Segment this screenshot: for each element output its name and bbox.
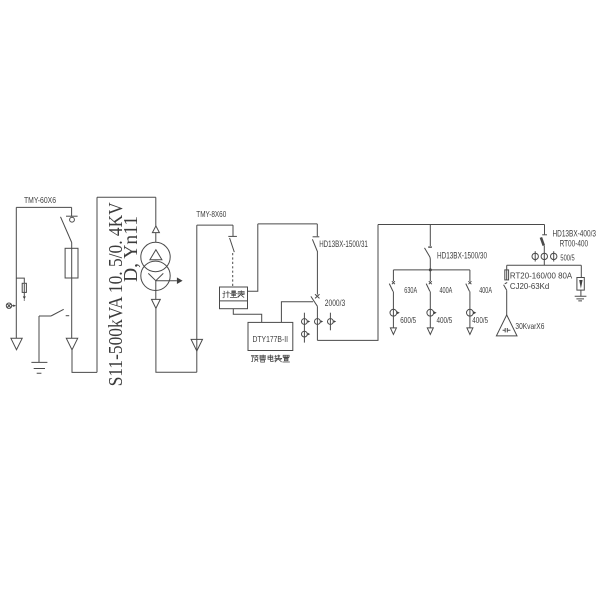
ground PE2 xyxy=(575,296,587,301)
switch HD13BX-1500/30 drop xyxy=(429,225,431,247)
wire distribution bus2 xyxy=(393,269,470,271)
wire drop to disconnector QS1 xyxy=(71,207,73,216)
node feeder 3 arrow (open triangle down) xyxy=(467,328,473,335)
wire earthing switch to ground xyxy=(38,316,40,362)
breaker QF4 cross mark xyxy=(468,281,471,284)
svg-text:HD13BX-1500/31: HD13BX-1500/31 xyxy=(319,239,368,249)
node connection arrow T1 (open triangle down) xyxy=(66,338,77,350)
svg-text:400/5: 400/5 xyxy=(472,315,488,325)
dashed wire to metering box xyxy=(232,253,234,287)
wire fuse-switch down xyxy=(543,246,545,266)
wire switch to breaker 2000/3 xyxy=(316,252,318,295)
svg-text:600/5: 600/5 xyxy=(400,315,416,325)
wire to transformer primary xyxy=(155,197,157,226)
CT 600/5 xyxy=(390,309,397,316)
wire 0.4kV bus segment A xyxy=(197,224,233,226)
transformer T delta symbol xyxy=(150,250,162,260)
disconnector QS1 fixed contact tick xyxy=(66,215,78,217)
wire bottom run to bus C riser xyxy=(317,225,378,341)
feeder 1 drop xyxy=(392,270,394,281)
wire secondary riser to 0.4kV bus xyxy=(196,225,198,372)
wire fuse to connection arrow xyxy=(71,278,73,338)
svg-text:RT20-160/00 80A: RT20-160/00 80A xyxy=(510,270,573,280)
svg-text:400A: 400A xyxy=(440,285,453,295)
label 预售电装置 (prepaid device, drawn glyphs) xyxy=(251,355,289,362)
fuse-switch HD13BX-400/3 drop xyxy=(544,225,546,235)
surge arrester F2 body xyxy=(577,278,584,291)
wire transformer secondary down xyxy=(155,291,157,300)
CT 500/5 line C xyxy=(553,251,555,261)
wire feeder 3 down xyxy=(469,291,471,328)
wire breaker down through CT xyxy=(316,306,318,340)
svg-text:500/5: 500/5 xyxy=(560,252,574,262)
svg-text:400A: 400A xyxy=(479,285,492,295)
wire contactor to capacitor bank xyxy=(506,290,508,315)
surge arrester F1 branch wire xyxy=(16,278,24,283)
metering box 计量表 xyxy=(220,287,248,309)
surge arrester F1 discharge arrow xyxy=(23,284,25,297)
fuse RT20-160/00 body xyxy=(505,270,509,280)
label 计量表 (metering meter, drawn glyphs) xyxy=(223,291,245,298)
feeder 3 drop xyxy=(469,270,471,281)
wire blade to fuse xyxy=(71,243,73,249)
contactor CJ20 tick xyxy=(505,283,508,284)
wire drop to fuse RT20 xyxy=(506,265,508,270)
breaker QF2 blade xyxy=(389,284,393,292)
wire primary loop top xyxy=(97,196,156,198)
wire 0.4kV bus segment B xyxy=(258,223,318,225)
fuse-switch fixed tick xyxy=(542,234,547,236)
svg-text:TMY-60X6: TMY-60X6 xyxy=(24,196,56,205)
svg-text:2000/3: 2000/3 xyxy=(325,298,345,309)
wire T2 to transformer xyxy=(155,233,157,243)
disconnector QS1 contact circle xyxy=(70,217,75,222)
indicator lamp (circle with X) xyxy=(6,303,11,308)
svg-text:TMY-8X60: TMY-8X60 xyxy=(196,210,226,219)
node plug arrow T3 (open triangle down) xyxy=(152,299,161,308)
wire 10kV incoming top xyxy=(16,206,71,208)
wire feeder 2 down xyxy=(429,291,431,328)
node feeder 2 arrow (open triangle down) xyxy=(427,328,433,335)
fuse FU1 body xyxy=(65,248,78,278)
wire meter box to bus riser xyxy=(248,224,258,291)
svg-text:400/5: 400/5 xyxy=(437,315,453,325)
earthing switch QS2 horizontal wire xyxy=(39,315,51,317)
wire meter box to prepaid device xyxy=(233,309,261,323)
wire T1 to primary loop bottom xyxy=(72,350,97,373)
surge arrester F2 arrow xyxy=(579,280,582,289)
prepaid device box DTY177B-II xyxy=(248,322,293,350)
transformer neutral arrow xyxy=(156,280,177,282)
svg-text:RT00-400: RT00-400 xyxy=(560,239,589,249)
wire drop to meter switch xyxy=(232,225,234,236)
wire through fuse FU1 xyxy=(71,248,73,278)
breaker QF3 blade xyxy=(426,284,430,292)
meter switch fixed tick xyxy=(228,235,237,237)
transformer T secondary winding circle xyxy=(141,261,170,290)
wire DTY sense line to breaker blade xyxy=(281,302,313,323)
switch HD13BX-1500/30 blade xyxy=(425,248,430,257)
CT group 2000/3 line B (on main wire) xyxy=(315,319,321,325)
wire capacitor bus3 xyxy=(507,264,582,266)
wire primary loop left vertical xyxy=(96,197,98,372)
svg-text:630A: 630A xyxy=(404,285,417,295)
CT group 2000/3 line A xyxy=(303,313,305,343)
capacitor bank triangle xyxy=(496,315,517,336)
earthing switch QS2 blade xyxy=(51,309,64,316)
CT 500/5 line B (on main wire) xyxy=(541,253,547,259)
wire lamp to line with arrowhead xyxy=(12,305,14,307)
switch HD13BX-1500/31 drop xyxy=(316,224,318,236)
node plug arrow T2 (open triangle up) xyxy=(152,226,159,233)
fuse-switch blade (fuse carrier, thick) xyxy=(541,237,544,245)
svg-text:HD13BX-400/3: HD13BX-400/3 xyxy=(553,228,597,238)
wire 0.4kV bus segment C xyxy=(378,224,545,226)
CT 400/5 feeder3 xyxy=(467,309,474,316)
node connection arrow T4 (open triangle down) xyxy=(191,339,202,351)
switch HD13BX-1500/31 fixed tick xyxy=(313,236,320,238)
svg-text:DTY177B-II: DTY177B-II xyxy=(253,334,289,344)
transformer T primary winding circle xyxy=(141,242,170,271)
contactor CJ20 blade xyxy=(504,285,507,291)
switch HD13BX-1500/30 fixed tick xyxy=(428,246,432,248)
breaker QF2 cross mark xyxy=(392,281,395,284)
wire switch to bus2 xyxy=(429,257,431,270)
meter switch blade xyxy=(230,238,235,252)
CT group 2000/3 neutral xyxy=(302,331,308,337)
capacitor symbol inside bank xyxy=(503,328,511,332)
CT 500/5 line A xyxy=(534,251,536,261)
svg-text:HD13BX-1500/30: HD13BX-1500/30 xyxy=(437,251,487,261)
CT group 2000/3 line C xyxy=(329,313,331,331)
switch HD13BX-1500/31 blade xyxy=(312,239,317,252)
svg-text:CJ20-63Kd: CJ20-63Kd xyxy=(510,281,550,291)
ground PE1 xyxy=(31,362,47,373)
feeder 2 drop xyxy=(429,270,431,281)
transformer T wye symbol xyxy=(148,273,163,290)
wire arrester to ground xyxy=(580,290,582,296)
wire feeder 1 down xyxy=(392,291,394,328)
breaker QF3 cross mark xyxy=(429,281,432,284)
junction dot bus2 xyxy=(429,268,432,271)
breaker QF1 blade xyxy=(311,296,318,306)
disconnector QS1 blade xyxy=(61,217,72,243)
surge arrester F1 body xyxy=(22,283,26,292)
wire secondary to bottom loop xyxy=(156,308,197,372)
wire incoming left vertical xyxy=(15,207,17,338)
svg-text:30KvarX6: 30KvarX6 xyxy=(515,321,544,331)
node feeder 1 arrow (open triangle down) xyxy=(390,328,396,335)
node incoming-line arrow (open triangle) xyxy=(11,338,22,349)
breaker QF1 cross mark xyxy=(315,294,320,298)
earthing switch QS2 fixed tick xyxy=(66,315,70,317)
svg-text:D, Yn11: D, Yn11 xyxy=(120,216,142,282)
breaker QF4 blade xyxy=(466,284,470,292)
CT 400/5 feeder2 xyxy=(427,309,434,316)
wire drop to arrester F2 xyxy=(580,265,582,277)
